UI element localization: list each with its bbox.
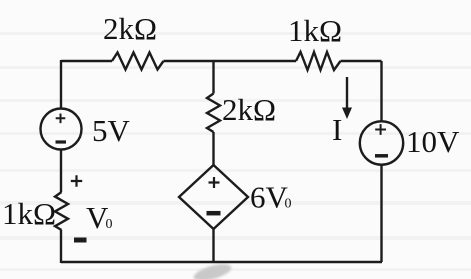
- svg-text:0: 0: [106, 217, 113, 232]
- svg-text:1kΩ: 1kΩ: [2, 196, 56, 231]
- svg-text:2kΩ: 2kΩ: [103, 11, 157, 46]
- svg-text:I: I: [332, 112, 342, 147]
- svg-text:5V: 5V: [92, 113, 131, 148]
- svg-text:1kΩ: 1kΩ: [288, 13, 342, 48]
- svg-text:6V: 6V: [250, 180, 289, 215]
- svg-text:10V: 10V: [406, 124, 460, 159]
- svg-text:0: 0: [285, 197, 292, 212]
- svg-text:2kΩ: 2kΩ: [222, 92, 276, 127]
